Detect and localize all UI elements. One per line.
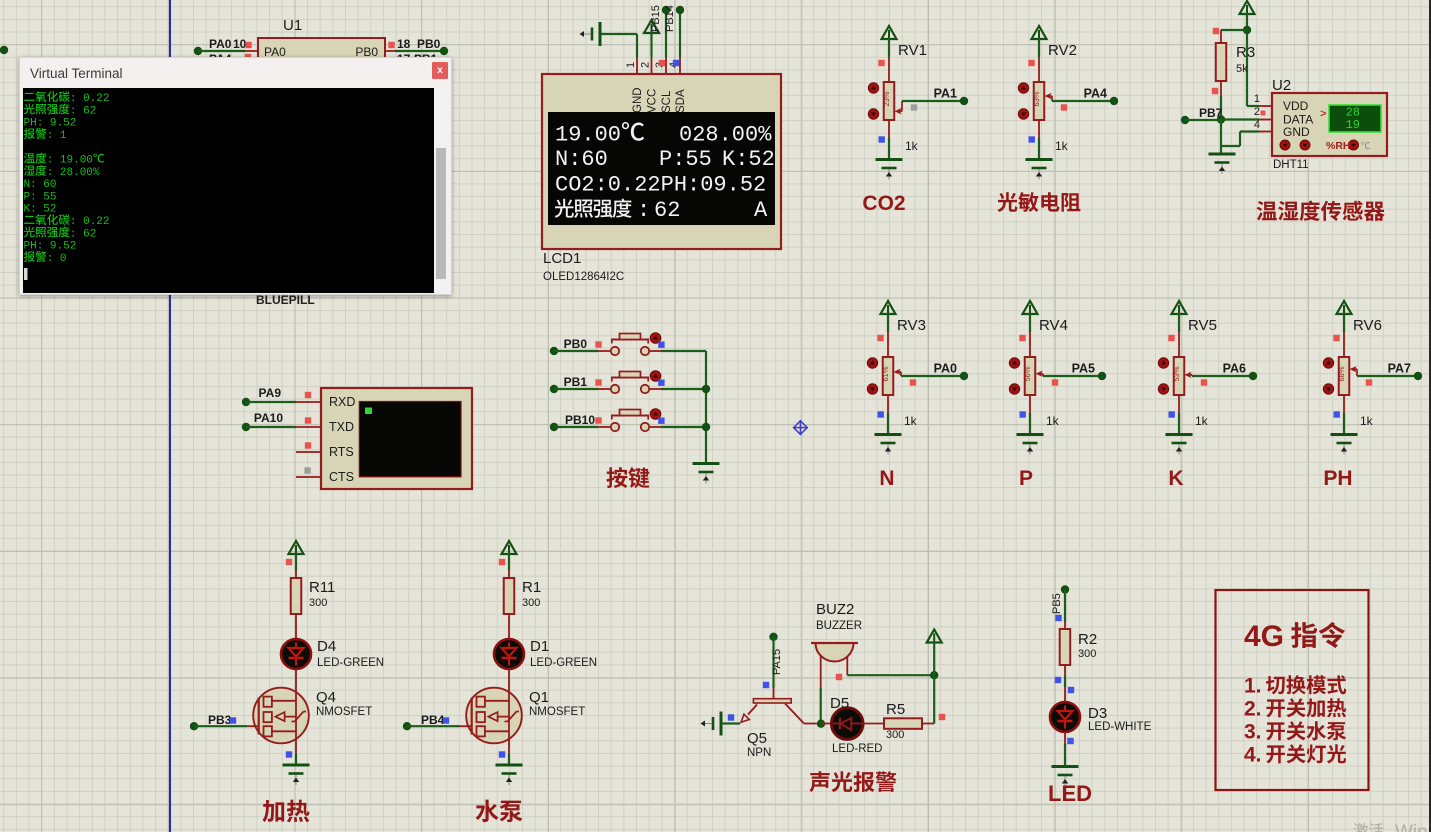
svg-text:GND: GND: [632, 87, 644, 113]
svg-text:U2: U2: [1272, 77, 1291, 94]
svg-text:K: K: [1168, 467, 1183, 490]
svg-text:: 62: : 62: [70, 228, 96, 240]
svg-text:: 19.00: : 19.00: [47, 155, 93, 167]
svg-text:PB5: PB5: [1051, 593, 1063, 614]
svg-text:1: 1: [625, 62, 637, 68]
svg-text:1k: 1k: [904, 414, 918, 428]
svg-text:2: 2: [1254, 106, 1260, 118]
svg-text:RV1: RV1: [898, 42, 927, 59]
svg-text:: 1: : 1: [47, 130, 67, 142]
svg-text:>: >: [1320, 108, 1326, 120]
svg-text:OLED12864I2C: OLED12864I2C: [543, 271, 624, 283]
svg-text:D3: D3: [1088, 705, 1107, 722]
svg-text:PA4: PA4: [1084, 87, 1107, 101]
svg-text:RV3: RV3: [897, 317, 926, 334]
svg-text:BUZ2: BUZ2: [816, 601, 854, 618]
svg-text:N:60: N:60: [555, 147, 608, 172]
svg-text:CO2:0.22PH:09.52: CO2:0.22PH:09.52: [555, 173, 766, 198]
svg-text:K: 52: K: 52: [24, 204, 57, 216]
svg-text:1k: 1k: [905, 139, 919, 153]
svg-text:: 62: : 62: [70, 105, 96, 117]
svg-text:63%: 63%: [1032, 91, 1041, 106]
svg-text:61%: 61%: [881, 366, 890, 381]
svg-text:4: 4: [1254, 119, 1260, 131]
svg-text:P: 55: P: 55: [24, 191, 57, 203]
svg-text:CO2: CO2: [862, 192, 905, 215]
svg-text:PB4: PB4: [421, 713, 445, 727]
svg-text:62: 62: [654, 198, 680, 223]
svg-text:PB10: PB10: [565, 413, 595, 427]
svg-text:R11: R11: [309, 579, 335, 596]
svg-text:56%: 56%: [1023, 366, 1032, 381]
svg-text:N: N: [879, 467, 894, 490]
svg-text::: :: [637, 198, 650, 223]
svg-text:RXD: RXD: [329, 395, 355, 409]
svg-text:PA7: PA7: [1388, 362, 1411, 376]
svg-text:2.: 2.: [1244, 698, 1262, 721]
svg-text:A: A: [754, 198, 768, 223]
svg-text:19.00: 19.00: [555, 123, 621, 148]
svg-text:19: 19: [1346, 118, 1360, 132]
svg-text:BLUEPILL: BLUEPILL: [256, 293, 315, 307]
svg-text:Win: Win: [1395, 822, 1428, 832]
svg-text:U1: U1: [283, 17, 302, 34]
svg-text:PB7: PB7: [1199, 106, 1223, 120]
svg-text:PA9: PA9: [259, 386, 282, 400]
svg-text:D4: D4: [317, 638, 336, 655]
svg-text:LCD1: LCD1: [543, 250, 581, 267]
svg-text:Q1: Q1: [529, 689, 549, 706]
svg-text:GND: GND: [1283, 125, 1310, 139]
svg-text:PA0: PA0: [934, 362, 957, 376]
svg-text:PB15: PB15: [650, 5, 662, 32]
svg-text:Q4: Q4: [316, 689, 336, 706]
svg-text:: 0.22: : 0.22: [70, 93, 110, 105]
svg-text:PB1: PB1: [564, 375, 588, 389]
svg-text:RTS: RTS: [329, 445, 354, 459]
svg-text:1: 1: [1254, 93, 1260, 105]
svg-text:PA15: PA15: [771, 649, 783, 675]
svg-text:1k: 1k: [1195, 414, 1209, 428]
svg-text:DHT11: DHT11: [1273, 159, 1309, 171]
svg-text:RV2: RV2: [1048, 42, 1077, 59]
svg-text:LED-RED: LED-RED: [832, 743, 882, 755]
svg-text:NMOSFET: NMOSFET: [529, 706, 585, 718]
svg-text:K:52: K:52: [722, 147, 775, 172]
svg-text:NPN: NPN: [747, 747, 771, 759]
svg-text:VCC: VCC: [647, 89, 659, 113]
svg-text:SCL: SCL: [661, 90, 673, 113]
svg-text:PA6: PA6: [1223, 362, 1246, 376]
svg-text:53%: 53%: [1172, 366, 1181, 381]
svg-text:PH: PH: [1323, 467, 1352, 490]
svg-text:300: 300: [522, 597, 540, 609]
svg-text:R3: R3: [1236, 44, 1255, 61]
svg-text:D5: D5: [830, 695, 849, 712]
svg-text:1k: 1k: [1360, 414, 1374, 428]
svg-text:1k: 1k: [1046, 414, 1060, 428]
svg-text:4.: 4.: [1244, 744, 1262, 767]
svg-text:CTS: CTS: [329, 470, 354, 484]
svg-text:10: 10: [233, 37, 247, 51]
svg-text:LED-WHITE: LED-WHITE: [1088, 721, 1152, 733]
svg-text:1k: 1k: [1055, 139, 1069, 153]
svg-text:PB0: PB0: [564, 337, 588, 351]
svg-text:PH: 9.52: PH: 9.52: [24, 118, 77, 130]
svg-text:RV4: RV4: [1039, 317, 1068, 334]
svg-text:LED-GREEN: LED-GREEN: [530, 657, 597, 669]
svg-text:TXD: TXD: [329, 420, 354, 434]
svg-text:VDD: VDD: [1283, 99, 1309, 113]
svg-text:23%: 23%: [882, 91, 891, 106]
svg-text:RV5: RV5: [1188, 317, 1217, 334]
svg-text:300: 300: [886, 729, 904, 741]
svg-text:: 0.22: : 0.22: [70, 216, 110, 228]
svg-text:PB14: PB14: [664, 5, 676, 32]
svg-text:PA5: PA5: [1072, 362, 1095, 376]
svg-text:1.: 1.: [1244, 675, 1262, 698]
svg-text:2: 2: [640, 62, 652, 68]
svg-text:D1: D1: [530, 638, 549, 655]
svg-text:: 28.00%: : 28.00%: [47, 167, 100, 179]
svg-text:3.: 3.: [1244, 721, 1262, 744]
svg-text:%RH: %RH: [1326, 140, 1351, 152]
svg-text:028.00%: 028.00%: [679, 123, 772, 148]
svg-text:PH: 9.52: PH: 9.52: [24, 241, 77, 253]
svg-text:PA1: PA1: [934, 87, 957, 101]
svg-text:PA10: PA10: [254, 411, 283, 425]
svg-text:P:55: P:55: [659, 147, 712, 172]
svg-text:4G: 4G: [1244, 620, 1284, 653]
svg-text:LED: LED: [1048, 781, 1092, 806]
svg-text:R1: R1: [522, 579, 541, 596]
svg-text:R5: R5: [886, 701, 905, 718]
svg-text:300: 300: [309, 597, 327, 609]
svg-text:NMOSFET: NMOSFET: [316, 706, 372, 718]
svg-text:Q5: Q5: [747, 730, 767, 747]
svg-text:18: 18: [397, 37, 411, 51]
svg-text:PB0: PB0: [417, 37, 441, 51]
svg-text:R2: R2: [1078, 631, 1097, 648]
svg-text:68%: 68%: [1337, 366, 1346, 381]
svg-text:LED-GREEN: LED-GREEN: [317, 657, 384, 669]
svg-text:PA0: PA0: [209, 37, 232, 51]
svg-text:: 0: : 0: [47, 253, 67, 265]
svg-text:N: 60: N: 60: [24, 179, 57, 191]
svg-text:BUZZER: BUZZER: [816, 620, 862, 632]
svg-text:RV6: RV6: [1353, 317, 1382, 334]
svg-text:5k: 5k: [1236, 63, 1248, 75]
svg-text:SDA: SDA: [675, 89, 687, 113]
svg-text:PB3: PB3: [208, 713, 232, 727]
svg-text:300: 300: [1078, 648, 1096, 660]
svg-text:P: P: [1019, 467, 1033, 490]
